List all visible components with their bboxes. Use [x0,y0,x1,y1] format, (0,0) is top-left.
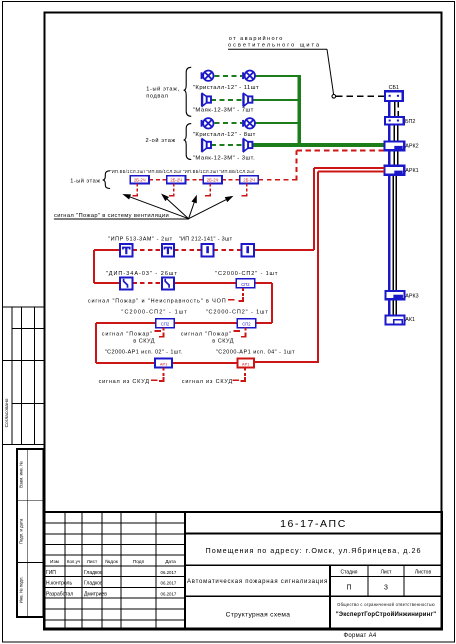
svg-text:Дата: Дата [165,559,176,565]
svg-text:Помещения по адресу: г.Омск, у: Помещения по адресу: г.Омск, ул.Ябринцев… [206,546,422,555]
svg-text:06.2017: 06.2017 [161,581,177,586]
svg-text:Лист: Лист [381,570,393,576]
svg-text:2Б-2Ч: 2Б-2Ч [243,177,255,182]
svg-text:Структурная схема: Структурная схема [226,612,291,619]
svg-text:СП2: СП2 [161,322,170,327]
svg-text:подвал: подвал [146,94,168,100]
svg-text:"С2000-СП2" - 1шт: "С2000-СП2" - 1шт [206,310,269,316]
svg-text:от аварийного: от аварийного [229,35,284,42]
svg-text:Разработал: Разработал [46,591,73,597]
svg-text:АР1: АР1 [242,362,250,367]
svg-text:"Маяк-12-3М" - 3шт.: "Маяк-12-3М" - 3шт. [193,156,255,162]
svg-text:Кол.уч: Кол.уч [67,559,80,564]
svg-text:06.2017: 06.2017 [161,570,177,575]
svg-text:"ИП.ВБ/1СЛ.2шт: "ИП.ВБ/1СЛ.2шт [147,169,183,174]
svg-text:сигнал "Пожар" в систему венти: сигнал "Пожар" в систему вентиляции [54,213,169,219]
svg-text:Гладков: Гладков [84,581,103,587]
svg-text:СП2: СП2 [241,282,250,287]
svg-text:Инв. № подл.: Инв. № подл. [18,576,23,603]
svg-text:"С2000-СП2" - 1шт: "С2000-СП2" - 1шт [215,271,278,277]
svg-text:Формат А4: Формат А4 [343,633,376,639]
svg-text:ГИП: ГИП [46,570,56,576]
svg-text:"С2000-СП2" - 1шт: "С2000-СП2" - 1шт [121,310,188,316]
svg-text:"Маяк-12-3М" - 7шт: "Маяк-12-3М" - 7шт [193,108,254,114]
svg-text:Лист: Лист [87,559,98,565]
svg-text:осветительного щита: осветительного щита [228,43,321,49]
svg-text:Общество с ограниченной ответс: Общество с ограниченной ответственностью [337,602,435,607]
svg-text:3: 3 [384,585,388,592]
svg-text:в СКУД: в СКУД [212,339,234,345]
svg-text:1-ый этаж,: 1-ый этаж, [146,85,179,92]
svg-text:"С2000-АР1 исп. 02" - 1шт.: "С2000-АР1 исп. 02" - 1шт. [105,350,183,356]
svg-text:Н.контроль: Н.контроль [46,581,72,587]
svg-text:"Кристалл-12" - 11шт: "Кристалл-12" - 11шт [193,85,259,91]
svg-text:Листов: Листов [415,570,432,576]
svg-text:2Б-2Ч: 2Б-2Ч [170,177,182,182]
svg-text:"ИП.ВБ/1СЛ.2шт: "ИП.ВБ/1СЛ.2шт [110,169,146,174]
svg-text:П: П [346,585,351,592]
svg-text:"ИП.ВБ/1СЛ.2шт: "ИП.ВБ/1СЛ.2шт [220,169,256,174]
svg-text:сигнал из СКУД: сигнал из СКУД [99,379,150,385]
svg-text:Подп: Подп [133,559,145,565]
svg-text:2Б-2Ч: 2Б-2Ч [134,177,146,182]
svg-text:АК1: АК1 [405,317,415,323]
svg-text:СБ1: СБ1 [389,85,399,91]
svg-text:АРК1: АРК1 [405,168,418,174]
svg-text:сигнал "Пожар": сигнал "Пожар" [181,332,232,338]
svg-text:сигнал "Пожар" и "Неисправност: сигнал "Пожар" и "Неисправность" в ЧОП [88,298,227,304]
svg-text:Стадия: Стадия [340,570,357,576]
svg-text:1-ый этаж: 1-ый этаж [70,177,100,184]
svg-text:АР1: АР1 [160,362,168,367]
svg-text:АРК2: АРК2 [405,144,418,150]
svg-text:Гладков: Гладков [84,570,103,576]
svg-text:Дмитриев: Дмитриев [84,591,107,597]
svg-text:"ДИП-34А-03" - 26шт: "ДИП-34А-03" - 26шт [106,271,178,277]
svg-text:сигнал из СКУД: сигнал из СКУД [182,379,233,385]
svg-text:"ИП 212-141" - 3шт: "ИП 212-141" - 3шт [179,237,233,243]
svg-text:Согласовано: Согласовано [4,398,10,427]
svg-text:06.2017: 06.2017 [161,591,177,596]
svg-text:в СКУД: в СКУД [133,339,155,345]
svg-text:"С2000-АР1 исп. 04" - 1шт: "С2000-АР1 исп. 04" - 1шт [216,350,295,356]
svg-text:№док: №док [105,559,119,565]
svg-text:СП2: СП2 [242,322,251,327]
svg-text:АРК3: АРК3 [405,293,418,299]
svg-text:"ЭкспертГорСтройИнжиниринг": "ЭкспертГорСтройИнжиниринг" [336,611,437,618]
svg-text:Изм: Изм [50,559,59,565]
svg-text:сигнал "Пожар": сигнал "Пожар" [102,332,153,338]
svg-text:Подп. и дата: Подп. и дата [18,518,23,544]
svg-text:Взам. инв. №: Взам. инв. № [18,461,23,488]
svg-text:"Кристалл-12" - 8шт: "Кристалл-12" - 8шт [193,132,256,138]
svg-text:2Б-2Ч: 2Б-2Ч [207,177,219,182]
svg-text:2-ой этаж: 2-ой этаж [146,137,176,144]
svg-text:Автоматическая пожарная сигнал: Автоматическая пожарная сигнализация [187,579,328,585]
svg-text:БП2: БП2 [405,119,415,125]
svg-text:"ИПР 513-3АМ" - 2шт: "ИПР 513-3АМ" - 2шт [108,237,173,243]
svg-text:"ИП.ВБ/1СЛ.2шт: "ИП.ВБ/1СЛ.2шт [183,169,219,174]
svg-text:16-17-АПС: 16-17-АПС [280,518,347,530]
